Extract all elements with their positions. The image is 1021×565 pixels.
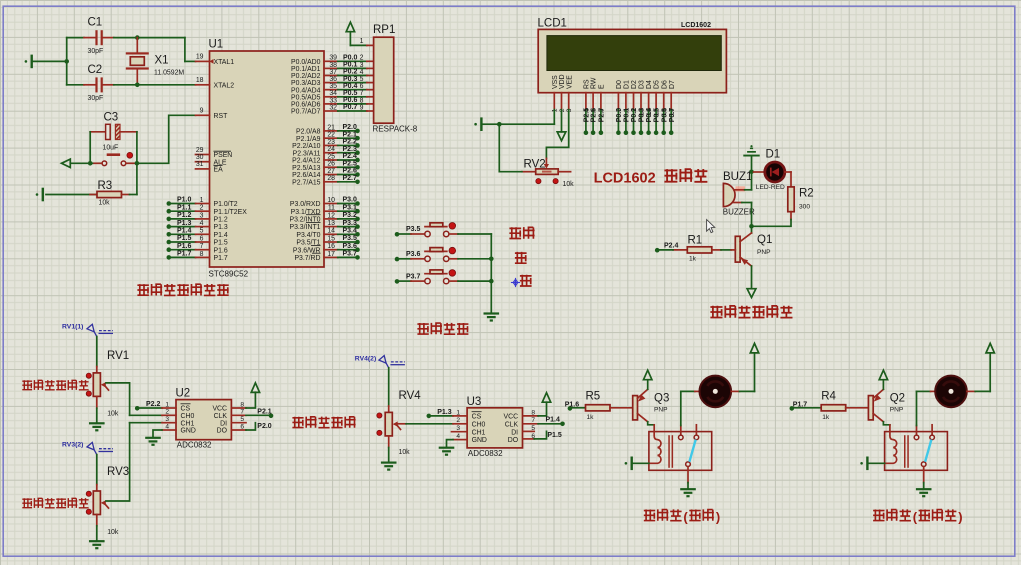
svg-text:P0.3: P0.3	[343, 76, 358, 83]
svg-text:P0.5/AD5: P0.5/AD5	[291, 94, 321, 101]
svg-text:14: 14	[327, 228, 335, 235]
svg-text:U2: U2	[176, 388, 191, 400]
resistor R1 1k	[673, 235, 735, 263]
svg-text:17: 17	[327, 251, 335, 258]
svg-text:RP1: RP1	[373, 24, 395, 36]
ground (U3 GND)	[439, 448, 455, 455]
pin P2.6/A14 (27) with net label P2.6	[292, 168, 360, 179]
potentiometer RV3 10k	[86, 466, 129, 536]
svg-text:LED-RED: LED-RED	[756, 184, 785, 191]
svg-text:P0.3/AD3: P0.3/AD3	[291, 80, 321, 87]
svg-text:13: 13	[327, 220, 335, 227]
potentiometer RV1 10k	[86, 350, 129, 417]
pin P2.1/A9 (22) with net label P2.1	[296, 131, 360, 142]
svg-text:ADC0832: ADC0832	[468, 449, 503, 458]
svg-text:RV3(2): RV3(2)	[62, 442, 83, 449]
wire C3 right bracket	[136, 132, 138, 164]
LCD pin 12 D5	[654, 80, 661, 135]
label 甲醛值调节	[292, 417, 355, 428]
svg-text:23: 23	[327, 139, 335, 146]
svg-text:P0.6: P0.6	[343, 97, 358, 104]
reset push button	[92, 152, 134, 165]
svg-text:35: 35	[329, 83, 337, 90]
relay switch blade	[925, 440, 931, 462]
U2 pin CLK wire with net label P2.1	[231, 409, 273, 419]
svg-text:3: 3	[200, 212, 204, 219]
svg-text:P1.2: P1.2	[214, 217, 228, 224]
svg-text:P0.0: P0.0	[616, 108, 623, 123]
resistor R3 10k	[46, 180, 137, 207]
power terminal (Q3 emitter)	[644, 370, 652, 389]
svg-text:P2.0: P2.0	[343, 124, 358, 131]
svg-text:Q1: Q1	[757, 234, 772, 246]
pin P3.2 (12) with net label P3.2	[289, 212, 359, 223]
svg-text:DI: DI	[220, 420, 227, 427]
svg-text:1: 1	[200, 197, 204, 204]
svg-text:8: 8	[200, 251, 204, 258]
svg-text:RV2: RV2	[524, 159, 546, 171]
label 继电器(净化器)	[873, 509, 962, 524]
svg-text:E: E	[599, 84, 606, 89]
U2 pin DO wire with net label P2.0	[231, 423, 271, 430]
wire button common trunk	[490, 234, 492, 313]
svg-text:Q2: Q2	[890, 393, 905, 405]
svg-text:P0.7: P0.7	[343, 104, 358, 111]
svg-text:C1: C1	[88, 17, 103, 29]
potentiometer RV4 10k	[377, 390, 421, 456]
LCD pin 9 D2	[631, 80, 638, 135]
svg-text:RV4: RV4	[399, 390, 422, 402]
svg-text:P0.0/AD0: P0.0/AD0	[291, 59, 321, 66]
svg-text:P2.1: P2.1	[343, 131, 358, 138]
svg-text:VSS: VSS	[552, 75, 559, 89]
capacitor C3 10uF	[90, 112, 137, 152]
svg-text:3: 3	[566, 108, 573, 112]
svg-text:P2.6/A14: P2.6/A14	[292, 172, 321, 179]
svg-text:P2.0/A8: P2.0/A8	[296, 129, 321, 136]
wire buzzer top to node	[751, 172, 753, 190]
resistor R5 1k	[586, 391, 633, 421]
svg-text:GND: GND	[181, 428, 196, 435]
svg-text:5: 5	[360, 76, 364, 83]
svg-text:P0.7: P0.7	[669, 108, 676, 123]
svg-text:34: 34	[329, 90, 337, 97]
relay contact common	[679, 426, 684, 440]
ground (U2 GND)	[145, 438, 161, 445]
svg-text:CH1: CH1	[181, 420, 195, 427]
svg-text:16: 16	[327, 243, 335, 250]
resistor pack RP1 RESPACK-8	[373, 24, 418, 134]
net label P1.7 wire	[790, 401, 822, 410]
svg-text:P3.4/T0: P3.4/T0	[296, 232, 320, 239]
relay switch blade	[689, 440, 695, 462]
svg-text:P3.5: P3.5	[343, 235, 358, 242]
blue terminal RV3(2)	[62, 442, 113, 455]
LCD pin 14 D7	[669, 80, 676, 135]
U2 pin DI stub	[231, 422, 246, 424]
pin P2.3/A11 (24) with net label P2.3	[293, 146, 360, 157]
svg-text:CS: CS	[181, 406, 191, 413]
pin P3.3 (13) with net label P3.3	[289, 220, 359, 231]
svg-text:2: 2	[559, 108, 566, 112]
ADC U3 ADC0832 body	[456, 396, 535, 458]
svg-text:RV3: RV3	[107, 466, 129, 478]
wire motor to power	[967, 353, 990, 391]
svg-text:3: 3	[360, 62, 364, 69]
svg-text:VEE: VEE	[566, 75, 573, 89]
svg-text:BUZ1: BUZ1	[723, 171, 752, 183]
power terminal (alarm, inverted ground)	[743, 145, 759, 172]
svg-text:11: 11	[328, 205, 335, 212]
node junction C1/X1 top	[135, 35, 140, 40]
svg-text:RW: RW	[591, 77, 598, 89]
power terminal (Q2 emitter)	[879, 370, 887, 389]
svg-text:12: 12	[327, 212, 335, 219]
svg-text:39: 39	[329, 55, 337, 62]
svg-text:X1: X1	[155, 55, 169, 67]
svg-text:P1.5: P1.5	[177, 235, 192, 242]
svg-text:P0.6: P0.6	[661, 108, 668, 123]
wire C2 to XTAL2	[114, 84, 196, 86]
svg-text:24: 24	[327, 146, 335, 153]
svg-text:D0: D0	[616, 80, 623, 89]
svg-text:26: 26	[327, 161, 335, 168]
svg-text:GND: GND	[472, 437, 487, 444]
svg-text:P1.3: P1.3	[177, 220, 192, 227]
wire Q2 collector to relay coil	[883, 422, 890, 432]
wire RV3 terminal to pot	[96, 455, 98, 491]
svg-text:P1.0/T2: P1.0/T2	[214, 201, 238, 208]
svg-text:P0.5: P0.5	[654, 108, 661, 123]
label 加	[515, 252, 527, 264]
pin P2.5/A13 (26) with net label P2.5	[292, 160, 360, 171]
svg-text:1k: 1k	[822, 414, 830, 421]
svg-text:R3: R3	[98, 180, 113, 192]
svg-text:9: 9	[360, 104, 364, 111]
svg-text:P1.4: P1.4	[214, 232, 228, 239]
svg-text:10k: 10k	[107, 529, 119, 536]
svg-text:D5: D5	[654, 80, 661, 89]
transistor Q3 PNP	[633, 389, 670, 422]
svg-text:P2.5: P2.5	[343, 160, 358, 167]
svg-text:P1.3: P1.3	[437, 409, 452, 416]
svg-text:RV1: RV1	[107, 350, 129, 362]
svg-text:LCD1602: LCD1602	[681, 22, 711, 29]
U2 pin GND wire	[153, 430, 176, 437]
svg-text:P1.3: P1.3	[214, 224, 228, 231]
ground (buttons)	[484, 314, 500, 321]
relay contact pole	[921, 462, 926, 483]
svg-text:D7: D7	[669, 80, 676, 89]
pin P0.1/AD1 (38) wire to RP1 pin 3	[291, 62, 374, 73]
relay contact pole	[686, 462, 691, 483]
svg-text:ADC0832: ADC0832	[177, 441, 212, 450]
svg-text:P2.5/A13: P2.5/A13	[292, 165, 321, 172]
svg-text:P0.4: P0.4	[646, 108, 653, 123]
svg-text:P2.1/A9: P2.1/A9	[296, 136, 321, 143]
LCD pin 5 RW	[591, 77, 598, 135]
svg-text:CH0: CH0	[181, 413, 195, 420]
terminal arrow (reset left)	[62, 159, 93, 167]
svg-text:RS: RS	[584, 79, 591, 89]
relay core bars	[668, 435, 673, 468]
pin P1.7 (8) with net label P1.7	[167, 251, 228, 262]
svg-text:10k: 10k	[107, 410, 119, 417]
label 可燃气值调节	[22, 380, 88, 390]
motor (继电器(净化器))	[935, 376, 967, 408]
ground (RV4)	[381, 463, 397, 470]
svg-text:DO: DO	[508, 437, 519, 444]
svg-text:P1.7: P1.7	[214, 255, 228, 262]
svg-text:36: 36	[329, 76, 337, 83]
pin P0.5/AD5 (34) wire to RP1 pin 7	[291, 90, 374, 101]
LCD pin 1 VSS	[552, 75, 559, 112]
terminal arrow down (LCD VDD)	[557, 110, 566, 141]
svg-text:DO: DO	[217, 428, 228, 435]
svg-text:5: 5	[200, 228, 204, 235]
power terminal (RP1 pin 1)	[346, 22, 367, 45]
svg-text:1: 1	[552, 108, 559, 112]
svg-text:P1.6: P1.6	[214, 247, 228, 254]
svg-text:P2.0: P2.0	[257, 423, 272, 430]
svg-text:P1.2: P1.2	[177, 212, 192, 219]
svg-text:6: 6	[200, 235, 204, 242]
LCD pin 3 VEE	[566, 75, 573, 112]
svg-text:C3: C3	[104, 112, 119, 124]
relay contact NC stub	[930, 425, 935, 440]
svg-text:P1.4: P1.4	[546, 417, 561, 424]
svg-text:P3.0/RXD: P3.0/RXD	[290, 201, 321, 208]
label 声光报警电路	[710, 306, 792, 318]
wire relay common to motor	[917, 391, 935, 425]
push button P3.5	[395, 223, 492, 237]
pin RST (9)	[196, 108, 229, 120]
svg-text:2: 2	[360, 55, 364, 62]
terminal arrow down (Q1 collector)	[747, 289, 756, 298]
wire reset to RST pin	[137, 115, 196, 163]
wire LCD VSS to ground	[553, 110, 555, 125]
svg-text:P2.7/A15: P2.7/A15	[292, 179, 321, 186]
motor (继电器(风扇))	[700, 376, 732, 408]
wire motor to power	[731, 353, 754, 391]
svg-text:XTAL1: XTAL1	[214, 59, 235, 66]
svg-text:P0.1: P0.1	[343, 62, 358, 69]
svg-text:18: 18	[196, 77, 204, 84]
LCD pin 4 RS	[583, 79, 590, 135]
label 独立按键	[417, 323, 468, 335]
relay box (继电器(净化器))	[885, 432, 948, 471]
svg-text:RV1(1): RV1(1)	[62, 324, 83, 331]
svg-text:P2.6: P2.6	[591, 108, 598, 123]
svg-text:30: 30	[196, 154, 204, 161]
svg-text:P0.7/AD7: P0.7/AD7	[291, 109, 321, 116]
svg-text:P2.4/A12: P2.4/A12	[292, 158, 321, 165]
svg-text:P2.4: P2.4	[343, 153, 358, 160]
svg-text:27: 27	[327, 168, 335, 175]
wire R3 to reset node	[136, 163, 138, 194]
pin P2.4/A12 (25) with net label P2.4	[292, 153, 360, 164]
svg-text:VCC: VCC	[212, 406, 227, 413]
svg-text:11.0592M: 11.0592M	[154, 70, 184, 77]
svg-text:CH1: CH1	[472, 429, 486, 436]
ground terminal (R3)	[36, 188, 44, 202]
svg-text:P0.4/AD4: P0.4/AD4	[291, 87, 321, 94]
label 单片机最小系统	[137, 284, 228, 296]
svg-text:6: 6	[360, 83, 364, 90]
svg-text:LCD1: LCD1	[538, 18, 567, 30]
node junction reset right	[135, 161, 140, 166]
svg-text:Q3: Q3	[654, 393, 669, 405]
label 苯气体值调节	[22, 498, 88, 508]
resistor R2 300	[788, 172, 814, 220]
svg-text:EA: EA	[214, 167, 224, 174]
svg-text:P0.6/AD6: P0.6/AD6	[291, 102, 321, 109]
push button P3.7	[395, 270, 492, 284]
relay coil	[649, 432, 661, 464]
svg-text:C2: C2	[88, 64, 103, 76]
wire relay common to motor	[681, 391, 699, 425]
svg-text:19: 19	[196, 54, 204, 61]
wire R2 bottom to emitter node	[752, 220, 792, 227]
svg-text:P0.5: P0.5	[343, 90, 358, 97]
power terminal (U3 VCC)	[542, 393, 550, 403]
svg-text:32: 32	[329, 104, 337, 111]
pin XTAL1 (19)	[196, 54, 235, 66]
svg-text:VDD: VDD	[559, 74, 566, 89]
LCD pin 2 VDD	[559, 74, 566, 112]
svg-text:8: 8	[360, 97, 364, 104]
node junction C2/X1 bottom	[135, 83, 140, 88]
LCD pin 6 E	[598, 84, 605, 135]
U3 pin CH0 stub	[453, 423, 467, 425]
ground (RV3)	[89, 541, 105, 548]
MCU U1 STC89C52 body	[209, 39, 325, 279]
svg-text:CH0: CH0	[472, 421, 486, 428]
svg-text:(: (	[913, 509, 918, 524]
ground terminal (relay coil)	[860, 457, 884, 471]
svg-text:4: 4	[200, 220, 204, 227]
relay contact NC stub	[694, 425, 699, 440]
svg-text:1: 1	[360, 38, 364, 45]
resistor R4 1k	[821, 391, 868, 421]
power terminal (U2 VCC)	[251, 383, 259, 393]
pin P1.1 (2) with net label P1.1	[167, 204, 248, 215]
pin P3.7 (17) with net label P3.7	[294, 251, 359, 262]
push button P3.6	[395, 247, 492, 261]
svg-text:P1.4: P1.4	[177, 228, 192, 235]
svg-text:U1: U1	[209, 39, 224, 51]
svg-text:P1.7: P1.7	[177, 251, 192, 258]
svg-text:DI: DI	[511, 429, 518, 436]
node junction VSS/RV2	[497, 122, 502, 127]
svg-text:XTAL2: XTAL2	[214, 82, 235, 89]
svg-text:33: 33	[329, 97, 337, 104]
svg-text:10uF: 10uF	[103, 145, 119, 152]
wire relay pole to ground	[687, 483, 689, 489]
node junction trunk/P3.6	[489, 257, 494, 262]
capacitor C1 30pF	[67, 17, 185, 55]
LCD1 LCD1602 display body	[538, 18, 727, 93]
potentiometer RV2 10k	[522, 158, 574, 188]
crystal X1 11.0592M	[126, 38, 185, 85]
svg-text:P0.1: P0.1	[624, 108, 631, 123]
relay coil	[885, 432, 897, 464]
capacitor C2 30pF	[67, 64, 114, 102]
svg-text:P1.1/T2EX: P1.1/T2EX	[214, 209, 248, 216]
U2 pin VCC wire to power	[231, 392, 255, 408]
pin P1.5 (6) with net label P1.5	[167, 235, 228, 246]
svg-text:P2.3: P2.3	[343, 146, 358, 153]
U2 pin CS wire with net label P2.2	[135, 401, 176, 410]
wire RV3 wiper to U2 CH1	[106, 423, 130, 501]
svg-text:R2: R2	[799, 188, 814, 200]
LCD pin 7 D0	[616, 80, 623, 135]
svg-text:P3.7: P3.7	[406, 273, 421, 280]
wire RV4 terminal to pot	[388, 368, 390, 413]
svg-text:): )	[716, 509, 720, 524]
svg-text:(: (	[683, 509, 688, 524]
svg-text:31: 31	[196, 161, 204, 168]
svg-text:PNP: PNP	[757, 249, 771, 256]
node junction emitter/R2	[749, 224, 754, 229]
wire buzzer bottom to emitter node	[751, 203, 753, 227]
svg-text:25: 25	[327, 153, 335, 160]
svg-text:10: 10	[327, 197, 335, 204]
wire RV3 bottom to ground	[96, 515, 98, 541]
transistor Q2 PNP	[868, 389, 905, 422]
pin P1.2 (3) with net label P1.2	[167, 212, 228, 223]
svg-text:PSEN: PSEN	[214, 152, 233, 159]
svg-text:P1.1: P1.1	[177, 204, 192, 211]
wire RV1 wiper to U2 CH0	[106, 383, 130, 415]
ground terminal (LCD VSS)	[474, 117, 554, 131]
U2 pin CH1 wire from RV3	[130, 422, 176, 424]
svg-text:30pF: 30pF	[88, 95, 104, 102]
selection crosshair cursor	[511, 278, 520, 287]
svg-text:VCC: VCC	[504, 414, 519, 421]
svg-text:RESPACK-8: RESPACK-8	[373, 125, 418, 134]
U2 pin CH0 wire from RV1	[130, 414, 176, 416]
svg-text:P1.6: P1.6	[177, 243, 192, 250]
svg-text:P2.6: P2.6	[343, 168, 358, 175]
wire LCD VEE to RV2 wiper	[546, 110, 568, 159]
svg-text:P2.2: P2.2	[343, 139, 358, 146]
U3 pin VCC wire to power	[523, 402, 546, 416]
relay contact common	[914, 426, 919, 440]
svg-text:CS: CS	[472, 414, 482, 421]
wire ground bus to RV2 left	[499, 124, 522, 172]
U3 pin CLK wire with net label P1.4	[523, 417, 565, 426]
wire RV4 wiper to U3 CH0	[397, 423, 454, 425]
U3 pin DO wire with net label P1.5	[523, 431, 562, 439]
LCD pin 10 D3	[638, 80, 645, 135]
pin ALE (30)	[196, 154, 227, 166]
svg-text:P3.3: P3.3	[343, 220, 358, 227]
label LCD1602显示屏	[594, 169, 708, 187]
LCD pin 8 D1	[623, 80, 630, 135]
svg-text:P2.2/A10: P2.2/A10	[292, 143, 321, 150]
pin EA (31)	[196, 161, 224, 173]
svg-text:21: 21	[327, 124, 335, 131]
svg-text:300: 300	[799, 204, 810, 211]
wire RV1 bottom to ground	[96, 396, 98, 422]
svg-text:R5: R5	[586, 391, 601, 403]
svg-text:38: 38	[329, 62, 337, 69]
net label P1.6 wire	[565, 401, 586, 410]
U3 pin GND wire	[447, 440, 468, 448]
svg-text:P3.7: P3.7	[343, 251, 358, 258]
pin P3.4 (14) with net label P3.4	[296, 228, 359, 239]
